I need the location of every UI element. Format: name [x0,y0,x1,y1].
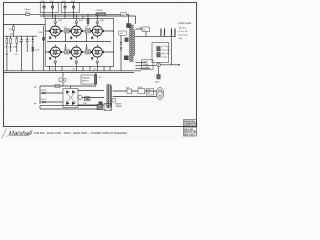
diode D5 HT [120,44,122,47]
svg-text:JCM800 PWR: JCM800 PWR [184,124,198,126]
output transformer T2 core [131,25,133,63]
svg-text:EL34: EL34 [100,20,104,22]
diode D1 [32,36,34,39]
resistor R4 [16,39,18,44]
node specks left of diodes [35,87,37,105]
wire screen drop x83 [82,16,84,18]
wire mains neutral y96.5 [113,96,157,98]
impedance selector box [142,60,154,70]
svg-text:1W: 1W [6,54,9,56]
test point top x55.3 [54,21,57,24]
choke L1 [96,13,106,16]
svg-text:H.T. fuse: H.T. fuse [162,46,171,48]
wire bridge out [78,91,104,106]
title block table [184,120,198,137]
capacitor C4 [73,3,75,15]
svg-text:ohm load: ohm load [179,34,188,36]
wire HT ground bus y70.8 [3,70,141,72]
wire bias rail y36.2 [5,35,38,37]
svg-text:1k5: 1k5 [85,27,88,29]
svg-text:STANDBY: STANDBY [82,77,91,80]
resistor R2 [6,39,8,44]
power amp box [45,18,114,66]
capacitor snubber on T2 [125,38,129,43]
svg-text:JCM 800 Model 2100 100W: JCM 800 Model 2100 100W LEAD AMP — POWER… [34,131,128,135]
svg-text:82k: 82k [10,34,13,36]
capacitor can C1 C2 (box) [40,2,58,12]
cathode marks [49,37,93,60]
wire secondary taps [136,62,157,68]
jack JK3 [158,67,160,75]
capacitor C2 [52,3,54,15]
wire grid links [45,31,114,52]
resistor R screen feed [87,14,89,19]
svg-text:2k2: 2k2 [99,77,102,79]
svg-text:ISS 4 JW: ISS 4 JW [184,128,193,131]
svg-text:BY127: BY127 [41,90,46,92]
svg-text:Speaker: Speaker [179,26,187,29]
svg-text:FS1: FS1 [84,103,87,105]
capacitor C5 [20,36,23,71]
svg-text:Fuse: Fuse [25,11,29,13]
svg-text:BY127: BY127 [41,99,46,101]
bridge rectifier BR1 [63,89,78,108]
diode D3 [40,101,43,103]
ground loop wire [40,106,97,109]
valve V2 [70,24,83,39]
component on inner vertical [42,37,44,41]
svg-text:4, 8 or 16: 4, 8 or 16 [179,30,189,33]
svg-text:220k: 220k [39,32,43,34]
wire B+ bus y16 [40,15,136,17]
svg-text:Output jacks: Output jacks [179,22,193,25]
hatched box ground [97,104,103,110]
dropper resistor R14 [95,73,97,75]
svg-text:16 OHM: 16 OHM [143,67,150,69]
wire HT bus y14 [3,13,129,15]
label cap box [119,31,126,35]
pilot lamp LP1 [157,63,161,67]
diode D2 [40,92,43,94]
fuse holder F1 in box [157,47,160,52]
wire row link verticals [47,33,111,50]
fuse FS3 [138,89,145,94]
grid resistor at 64.6,49.5 [65,50,67,55]
valve V5 [70,45,83,60]
grid resistor at 85.6,28.5 [86,29,88,34]
corner swash stroke [2,129,7,139]
lamp fuse glyph [62,73,64,78]
wire PSU left vertical [39,86,41,104]
valve V6 [91,45,104,60]
svg-text:SWITCH: SWITCH [82,81,89,83]
test point bottom x76.3 [75,61,78,64]
T1 HT secondary winding [106,85,109,108]
standby switch box [81,75,95,84]
diode D4 HT [120,35,122,42]
svg-text:100k: 100k [9,29,13,31]
test point top x97.3 [96,21,99,24]
fuse FS1 [85,97,91,101]
test point top x76.3 [75,21,78,24]
svg-text:1k5: 1k5 [64,27,67,29]
wire lamp to arrow [161,64,181,66]
label box on HT line [121,13,127,16]
speaker jack J2 [171,28,176,36]
valve V3 [91,24,104,39]
svg-text:CHOKE: CHOKE [96,10,104,12]
resistor R15 on PSU top [55,85,60,88]
fuse holder F2 in box [157,53,160,58]
label box voltage [147,88,154,95]
svg-text:47k: 47k [5,47,8,49]
handwritten note right [179,26,189,40]
svg-text:EL34: EL34 [79,20,83,22]
capacitor C feedback [124,56,129,61]
test point bottom x55.3 [54,61,57,64]
chassis box [104,104,112,111]
svg-text:50Hz: 50Hz [147,93,151,95]
capacitor C1 [43,3,45,15]
svg-text:type only: type only [161,52,170,55]
junction dots ground bus [12,70,94,71]
svg-text:anti-surge: anti-surge [162,49,172,52]
border frame of schematic [4,3,197,127]
valve V4 [49,45,62,60]
wire inner vertical x43.5 [43,26,45,71]
voltage selector plug [112,98,116,102]
grid resistor at 88.6,28.5 [89,29,91,34]
wire jack sleeve down [171,36,173,64]
svg-text:2 amp: 2 amp [161,57,168,59]
capacitor C7 [32,47,34,52]
capacitor C3 [64,3,66,15]
capacitor can C3 C4 (box) [61,2,79,12]
wire selector to jacks [135,29,176,36]
wire bias bus y72.5 [3,72,134,74]
svg-text:MARSHALL: MARSHALL [184,120,196,123]
mains inlet [156,88,164,100]
svg-text:JACK: JACK [155,81,160,84]
svg-text:Marshall: Marshall [8,130,33,137]
grid resistor at 88.6,49.5 [89,50,91,55]
svg-text:56k: 56k [14,47,17,49]
wire extra drops below box [50,66,111,71]
bias feed resistor R1 [13,24,14,25]
svg-text:SHT 1 OF 1: SHT 1 OF 1 [184,134,196,136]
wire heater line y24.5 [3,24,45,26]
T2 primary winding [130,26,131,62]
T1 primary winding [110,86,113,107]
capacitor C6 [26,36,29,52]
wire can cap leads into box [44,14,74,18]
note text in box [161,46,172,59]
voltage selector block [99,102,103,108]
speaker jack J1 [160,28,165,36]
test point bottom x97.3 [96,61,99,64]
notes box [152,43,169,63]
grid resistor at 85.6,49.5 [86,50,88,55]
switch SW1 [127,89,132,93]
capacitor across OT primary [126,23,130,28]
svg-text:FUSE: FUSE [138,87,144,89]
grid resistor at 67.6,49.5 [68,50,70,55]
wire OT primary feed [129,14,136,24]
grid resistor at 67.6,28.5 [68,29,70,34]
svg-text:EL34: EL34 [58,20,62,22]
svg-text:TRANS: TRANS [116,105,123,108]
svg-text:47k: 47k [9,47,12,49]
selector feed box [142,27,150,32]
logo underline flourish [7,134,30,137]
selector wiper arrow [140,27,143,30]
T2 secondary winding [133,30,134,56]
valve V1 [49,24,62,39]
fuse FS2 [26,13,30,15]
junction dots on bus [44,14,97,15]
svg-text:1W: 1W [15,54,18,56]
wire mains live y91 [113,90,157,92]
mains transformer T1 core [108,84,110,108]
wire PSU top y86 [40,85,96,87]
resistor R3 [10,39,12,44]
svg-text:MODEL 2100: MODEL 2100 [184,126,198,128]
svg-text:DRG NO 100: DRG NO 100 [184,132,197,134]
svg-text:SW: SW [126,87,129,89]
grid resistor at 64.6,28.5 [65,29,67,34]
